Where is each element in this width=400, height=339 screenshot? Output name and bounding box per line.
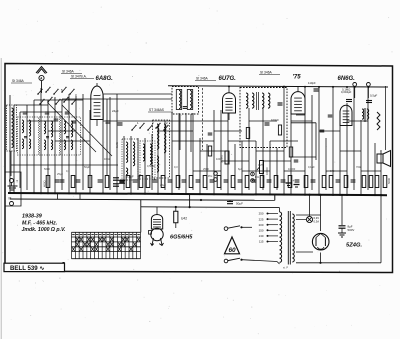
svg-text:100pF: 100pF (271, 118, 279, 122)
svg-text:St 346A: St 346A (12, 79, 25, 83)
svg-text:T: T (16, 180, 18, 184)
svg-text:10000: 10000 (265, 167, 269, 175)
svg-text:1938-39: 1938-39 (22, 213, 42, 219)
svg-text:25µF: 25µF (57, 172, 63, 176)
svg-text:6G5/6H5: 6G5/6H5 (170, 235, 193, 241)
svg-text:0,1MΩ: 0,1MΩ (342, 88, 350, 92)
svg-text:St 346A: St 346A (260, 71, 273, 75)
svg-text:6µ3: 6µ3 (238, 167, 243, 171)
svg-text:70Ω: 70Ω (356, 165, 361, 169)
svg-text:5Z4G.: 5Z4G. (346, 243, 362, 249)
svg-text:130: 130 (259, 234, 264, 238)
svg-text:225: 225 (259, 217, 264, 221)
svg-text:st. P: st. P (283, 266, 288, 269)
svg-text:50µF: 50µF (84, 165, 90, 169)
svg-text:'75: '75 (293, 75, 302, 81)
svg-text:150: 150 (259, 229, 264, 233)
svg-text:500V: 500V (348, 228, 355, 232)
svg-text:BELL 539 ∿: BELL 539 ∿ (10, 265, 44, 272)
svg-text:24µF: 24µF (112, 109, 119, 113)
svg-text:250: 250 (259, 212, 264, 216)
svg-text:St 346A: St 346A (196, 77, 209, 81)
svg-text:340: 340 (330, 169, 335, 173)
svg-text:St 347B.A.: St 347B.A. (71, 75, 87, 79)
svg-text:0,5MΩ: 0,5MΩ (147, 164, 155, 168)
svg-text:5000: 5000 (387, 178, 391, 184)
svg-text:25µF: 25µF (160, 183, 166, 187)
svg-text:P.U.: P.U. (255, 175, 260, 179)
svg-text:0,5µF: 0,5µF (370, 94, 377, 98)
svg-text:ST 346AS: ST 346AS (149, 108, 165, 112)
svg-text:M: M (9, 197, 12, 201)
svg-text:200: 200 (259, 223, 264, 227)
svg-text:0,3A: 0,3A (314, 220, 320, 224)
svg-text:M.F. - 465 kHz.: M.F. - 465 kHz. (22, 221, 57, 227)
svg-text:6,3V: 6,3V (314, 216, 320, 220)
svg-text:6U7G.: 6U7G. (219, 76, 237, 82)
svg-text:60: 60 (228, 247, 236, 254)
svg-text:2500: 2500 (203, 167, 209, 171)
svg-text:400Ω: 400Ω (43, 181, 47, 188)
svg-text:0,25: 0,25 (258, 163, 264, 167)
svg-text:1MΩ: 1MΩ (104, 157, 110, 161)
svg-text:St 346A: St 346A (62, 70, 75, 74)
svg-text:0,3: 0,3 (174, 165, 178, 169)
svg-text:115: 115 (259, 240, 264, 244)
svg-text:0,1: 0,1 (66, 169, 70, 173)
svg-text:5000: 5000 (44, 167, 50, 171)
svg-text:U42: U42 (181, 217, 187, 221)
svg-text:110pF: 110pF (308, 81, 316, 85)
svg-text:6A8G.: 6A8G. (96, 76, 114, 82)
svg-text:Jmdk. 1000 Ω p.V.: Jmdk. 1000 Ω p.V. (22, 227, 66, 233)
svg-text:0,1µF: 0,1µF (126, 175, 134, 179)
svg-text:50µF: 50µF (236, 201, 243, 205)
svg-text:+: + (293, 179, 295, 183)
svg-text:10000: 10000 (288, 167, 296, 171)
svg-text:100: 100 (216, 157, 221, 161)
svg-text:0,1µF: 0,1µF (308, 165, 315, 169)
svg-text:P.U.: P.U. (208, 174, 213, 178)
svg-text:6N6G.: 6N6G. (338, 76, 356, 82)
svg-text:1MΩ: 1MΩ (115, 142, 119, 148)
